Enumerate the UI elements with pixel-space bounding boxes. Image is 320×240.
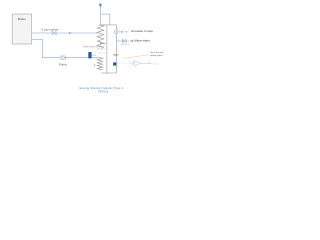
air vent icon — [99, 3, 101, 6]
tick mark blue left of coil — [94, 64, 95, 66]
arrow: mains water flow left — [129, 40, 133, 43]
wire: flow pipe boiler to coil — [32, 32, 98, 34]
node: signal junction circle — [132, 62, 134, 64]
wire: coil top connector — [99, 24, 101, 26]
sensor: flow meter square on return pipe — [88, 52, 91, 58]
svg-text:flow rate: flow rate — [98, 52, 106, 55]
sensor: cylinder temperature probe — [113, 62, 116, 65]
wire: hot water outlet — [118, 31, 128, 33]
pump P1 — [61, 55, 65, 59]
svg-text:display: display — [153, 63, 159, 65]
svg-text:analog output: analog output — [150, 54, 163, 57]
svg-text:Pump: Pump — [59, 63, 67, 67]
arrow: flow direction right — [69, 32, 72, 34]
svg-text:Hot water to taps: Hot water to taps — [131, 29, 153, 33]
svg-text:Stop cock: Stop cock — [121, 43, 130, 46]
svg-text:kWh: kWh — [92, 55, 96, 57]
callout leader line — [123, 55, 149, 59]
arrow: hot water to taps — [121, 31, 124, 33]
cylinder inner wall line — [106, 25, 108, 73]
svg-text:pockets: pockets — [97, 48, 106, 51]
svg-text:2 port valve: 2 port valve — [42, 27, 58, 31]
svg-text:PRT: PRT — [113, 53, 119, 57]
svg-text:Energy Monitor Cylinder Type 2: Energy Monitor Cylinder Type 2 — [80, 86, 124, 90]
coil: lower zigzag — [97, 58, 102, 70]
cylinder tank — [100, 25, 116, 73]
amplifier triangle U1 — [134, 61, 140, 67]
wire: amplifier output — [140, 62, 149, 64]
boiler B1 — [12, 14, 31, 44]
wire: mains water inlet — [116, 40, 133, 42]
wire: sensor signal dashed — [117, 62, 132, 64]
valve V2: stop cock on mains — [122, 39, 126, 42]
wire: return pipe boiler down and to pump — [32, 39, 101, 57]
svg-text:Boiler: Boiler — [18, 17, 26, 21]
wire: vent riser — [100, 7, 102, 25]
valve V1: 2-port valve body — [52, 31, 56, 34]
svg-text:EMT2ph: EMT2ph — [98, 89, 108, 93]
thermostat circle on cylinder right edge — [115, 30, 119, 34]
wire: top branch to cylinder — [101, 14, 110, 25]
svg-text:This is the only: This is the only — [150, 51, 165, 54]
coil: upper zigzag — [97, 25, 104, 47]
svg-text:Mains water: Mains water — [134, 39, 150, 43]
arrow: output arrowhead — [149, 62, 152, 64]
